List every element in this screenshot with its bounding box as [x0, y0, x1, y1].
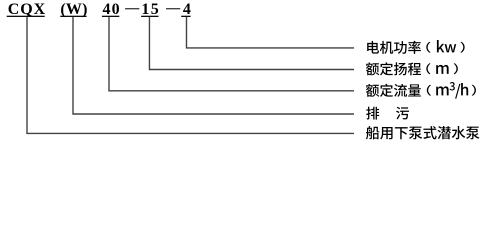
- dash separator 2: [166, 8, 180, 9]
- svg-text:(W): (W): [60, 1, 87, 18]
- wire 40 to rated-flow label: [109, 17, 354, 91]
- svg-text:15: 15: [141, 1, 160, 18]
- label rated-head (额定扬程 m): [366, 62, 458, 75]
- value 40 (rated flow): [102, 1, 121, 18]
- label rated-flow (额定流量 m3/h): [366, 82, 476, 99]
- svg-text:40: 40: [103, 1, 121, 18]
- value 4 (motor power): [181, 1, 191, 18]
- wire CQX to marine-pump label: [27, 17, 354, 133]
- model code CQX: [7, 1, 46, 18]
- label marine submersible pump (船用下泵式潜水泵): [366, 126, 479, 139]
- svg-text:CQX: CQX: [8, 1, 46, 18]
- label sewage (排污): [366, 107, 409, 120]
- dash separator 1: [125, 8, 139, 9]
- wire (W) to sewage label: [73, 17, 354, 114]
- value 15 (rated head): [141, 1, 160, 18]
- wire 4 to motor-power label: [187, 17, 355, 48]
- svg-text:4: 4: [183, 1, 191, 18]
- label motor-power (电机功率 kw): [367, 40, 464, 54]
- wire 15 to rated-head label: [149, 17, 354, 70]
- model code (W): [60, 1, 87, 18]
